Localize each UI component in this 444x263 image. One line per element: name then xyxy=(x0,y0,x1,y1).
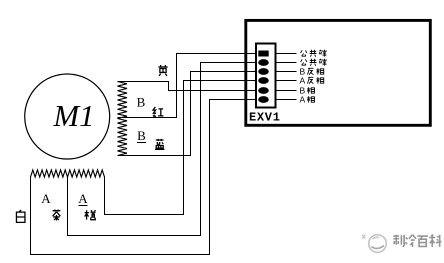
pin 6 leader line xyxy=(276,99,297,101)
pin 6 label A相 xyxy=(300,95,315,105)
wire: orange 橙 (A winding end) to pin4 A反相 xyxy=(105,81,257,215)
connector EXV1 body xyxy=(256,44,276,108)
motor M1 body xyxy=(25,74,110,159)
svg-text:A: A xyxy=(300,95,306,105)
pin 3 leader line xyxy=(276,71,297,73)
pin 3 contact xyxy=(258,68,269,75)
pin 2 label 公共端 xyxy=(301,59,326,66)
lead label 茶 brown xyxy=(53,210,61,221)
lead label 黄 yellow xyxy=(158,65,167,76)
wire: blue 蓝 (B winding end) to pin3 B反相 xyxy=(118,72,257,156)
lead label 白 white xyxy=(16,210,25,222)
pin 1 label 公共端 xyxy=(301,50,326,57)
lead label 橙 orange xyxy=(85,210,96,219)
wire: brown 茶 (A winding common tap) to pin2 公共端 xyxy=(68,63,257,236)
pin 3 label B反相 xyxy=(300,67,324,77)
wire: red 红 (B winding common tap) to pin1 公共端 xyxy=(118,54,257,118)
winding B zigzag xyxy=(118,82,128,156)
pin 4 leader line xyxy=(276,80,297,82)
svg-text:A: A xyxy=(300,76,306,86)
pin 5 label B相 xyxy=(300,86,315,96)
wire: white 白 (A winding start) to pin6 A相 xyxy=(31,100,257,255)
pin 4 label A反相 xyxy=(300,76,324,86)
svg-text:EXV1: EXV1 xyxy=(249,111,281,125)
watermark logo circle xyxy=(362,235,386,253)
winding A zigzag xyxy=(31,170,105,177)
lead label 蓝 blue xyxy=(155,139,164,150)
watermark text 制冷百科 xyxy=(393,235,441,247)
svg-text:M1: M1 xyxy=(53,98,95,133)
pin 2 leader line xyxy=(276,62,297,64)
pin 1 (square contact) xyxy=(258,51,268,57)
pin 2 contact xyxy=(258,59,269,66)
wire: yellow 黄 (B winding top) to pin5 B相 xyxy=(118,82,257,91)
pin 5 leader line xyxy=(276,90,297,92)
pin 6 contact xyxy=(258,96,269,103)
svg-text:A: A xyxy=(41,191,51,206)
svg-text:A: A xyxy=(78,191,88,206)
lead label 红 red xyxy=(153,107,164,116)
svg-text:B: B xyxy=(137,95,146,110)
pin 5 contact xyxy=(258,87,269,94)
pin 4 contact xyxy=(258,77,269,84)
pin 1 leader line xyxy=(276,53,297,55)
controller box EXV1 enclosure xyxy=(246,20,430,125)
svg-text:B: B xyxy=(137,128,146,143)
